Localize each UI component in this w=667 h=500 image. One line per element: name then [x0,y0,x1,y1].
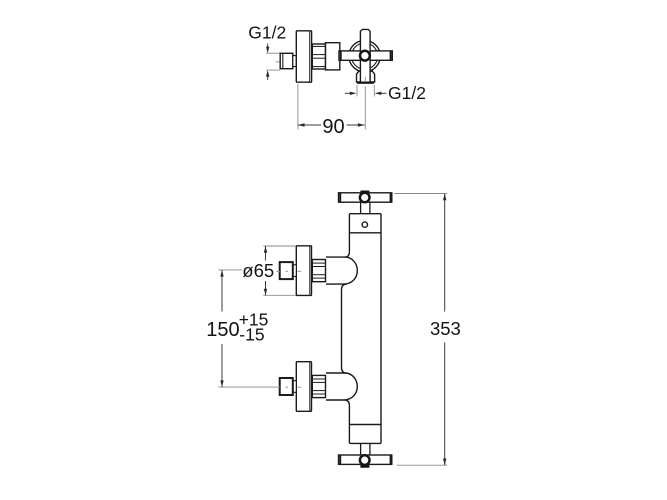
elbow 2 [326,373,357,400]
side nipple chamfer line [282,53,284,68]
side nut ridge lines [312,46,325,66]
side cap outer circle [349,40,380,71]
extension line 353 top [394,193,447,195]
nut1 ridge lines [312,263,325,278]
centerline 90 right [364,77,366,81]
nut 2 [312,375,325,397]
arrow 150 down [220,380,223,387]
flange1 edge line [309,247,311,295]
front bottom handle bar [339,455,392,464]
nut 1 [312,260,325,282]
svg-text:90: 90 [322,116,344,138]
extension line o65 top [263,245,296,247]
nipple 2 [280,378,293,395]
side outlet dark bottom band [357,82,374,84]
side wall flange [296,31,311,82]
side thread nut [312,44,325,69]
svg-text:G1/2: G1/2 [388,83,426,103]
side flange edge line [309,32,311,82]
centerline 2 [276,386,301,388]
svg-text:ø65: ø65 [242,260,274,281]
body top section line [349,232,381,234]
body right edge [380,214,382,444]
arrow o65 down [264,289,267,296]
svg-text:G1/2: G1/2 [248,23,286,43]
arrow 90 left [298,123,305,126]
front bottom arm cap [360,465,369,468]
side cap inner circle [352,43,378,69]
side bar left cap [340,51,342,60]
extension line 150 bottom [218,386,276,388]
front top stem [361,202,370,213]
front top handle bar [339,193,392,202]
extension line o65 bottom [263,294,296,296]
extension line outlet right [373,85,375,97]
fillet elbow2 top [342,367,347,373]
side outlet collar [357,71,375,82]
arrow left to outlet right edge [375,92,387,95]
svg-text:150: 150 [206,319,239,341]
fillet elbow1 bottom [342,284,347,290]
elbow 1 [326,257,357,284]
arrow up to nipple bottom [266,70,269,80]
side nipple connector [293,56,297,67]
body left edge lower [348,406,350,425]
dimension line o65 [265,246,267,260]
front bottom bar left cap [339,455,341,464]
front top bar left cap [339,193,341,202]
body top edge [349,213,381,215]
front bottom bar right cap [390,455,392,464]
arrow 90 right [358,123,365,126]
centerline 1 [276,270,301,272]
side nipple G1/2 [280,53,293,68]
side handle vertical arm [360,29,370,82]
extension line nipple bottom [266,69,280,71]
extension line outlet left [356,85,358,97]
flange 1 [296,246,311,296]
svg-text:353: 353 [430,318,461,339]
body left edge upper [348,214,350,252]
front top bar right cap [390,193,392,202]
flange 2 [296,362,311,412]
arrow 353 down [443,459,446,466]
arrow 150 up [220,270,223,277]
extension line 150 top [218,269,242,271]
front top hub [360,193,370,203]
connector 2 [293,381,296,393]
body band left edge [348,425,350,444]
side hub circle [360,51,370,61]
connector 1 [293,265,296,277]
dimension line 90 [298,124,321,126]
arrow 353 up [443,194,446,201]
fillet elbow1 top [345,252,350,257]
front bottom hub [360,455,370,465]
extension line nipple top [266,52,280,54]
front top handle arm cap [360,191,369,194]
centerline of side nipple [276,61,281,63]
flange2 edge line [309,362,311,410]
front bottom stem [361,443,370,455]
body bottom band line [349,424,381,426]
body bottom edge [349,442,381,444]
body left edge middle [341,290,343,367]
extension line 353 bottom [397,464,447,466]
svg-text:-15: -15 [239,325,264,345]
side valve body [326,43,340,70]
side bar right cap [390,51,392,60]
dimension line 150 [221,270,223,311]
side handle horizontal bar [339,51,392,60]
dimension line 353 [444,194,446,312]
extension line 90 left [297,84,299,130]
arrow right to outlet left edge [345,92,357,95]
arrow o65 up [264,246,267,253]
temp indicator circle [362,222,367,227]
fillet elbow2 bottom [345,400,350,406]
arrow down to nipple top [266,44,269,54]
nut2 ridge lines [312,379,325,394]
nipple 1 [280,262,293,279]
